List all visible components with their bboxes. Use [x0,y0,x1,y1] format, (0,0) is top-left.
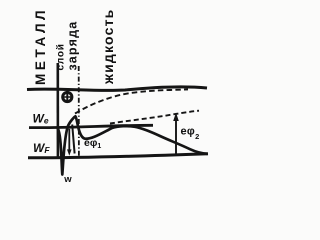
svg-text:еφ1: еφ1 [84,137,101,150]
svg-text:We: We [33,112,49,126]
svg-text:жидкость: жидкость [100,9,116,85]
svg-text:w: w [63,174,72,185]
svg-text:заряда: заряда [65,21,79,71]
svg-text:еφ2: еφ2 [181,126,200,142]
svg-text:WF: WF [33,141,50,155]
svg-text:МЕТАЛЛ: МЕТАЛЛ [33,7,48,85]
